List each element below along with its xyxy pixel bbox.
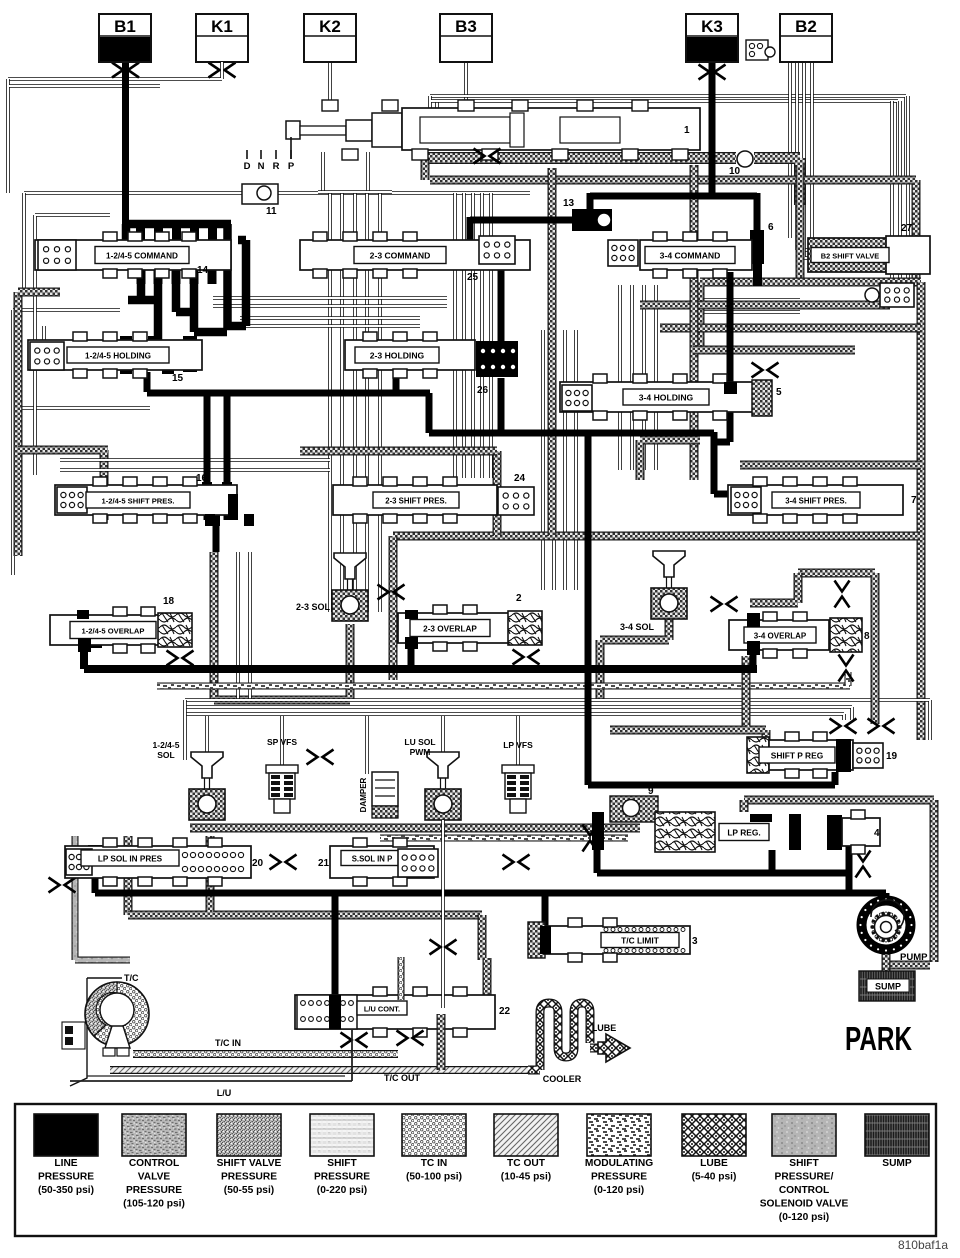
wire mid h5 <box>60 458 330 462</box>
line pressure step down <box>426 393 433 433</box>
svg-text:2: 2 <box>516 593 522 604</box>
check valve left of 3-4 overlap <box>711 597 738 612</box>
wire manual valve drop 2 <box>366 152 370 193</box>
wire right drop to B2SV <box>890 101 894 283</box>
wire B3 to valve1 <box>435 100 439 118</box>
channel left hatched branch <box>18 450 108 520</box>
svg-text:TC OUT: TC OUT <box>507 1158 546 1169</box>
channel cv pressure band <box>425 152 736 164</box>
check valve right of sp vfs <box>307 750 334 765</box>
valve 2-3 holding 26 <box>345 340 475 370</box>
node 13 junction block <box>572 209 612 231</box>
manual valve spool lands <box>420 117 510 143</box>
line pressure top-right horizontal <box>590 193 757 200</box>
legend swatch SUMP <box>865 1114 929 1156</box>
svg-text:1-2/4-5 SHIFT PRES.: 1-2/4-5 SHIFT PRES. <box>101 496 174 505</box>
svg-text:(10-45 psi): (10-45 psi) <box>501 1172 551 1183</box>
line pressure 1-2/4-5 overlap drop <box>80 648 88 669</box>
line pressure drop to 2-3 command <box>467 217 474 248</box>
check valve between 20 21 <box>270 855 297 870</box>
spring block 18 <box>158 613 192 647</box>
valve 3-4 holding right block <box>752 380 772 416</box>
line pressure cluster top h <box>122 220 231 229</box>
line pressure cluster bottom nubs <box>137 270 146 284</box>
line pressure connector 1-2/4-5 overlap <box>78 638 91 652</box>
channel left edge hatched <box>14 292 23 556</box>
check valve on lu line <box>430 940 457 955</box>
pump <box>862 901 911 950</box>
pump gerotor <box>871 900 904 931</box>
legend swatch CONTROL <box>122 1114 186 1156</box>
channel hatched right h5 <box>640 440 700 480</box>
line pressure cluster below command <box>128 266 227 348</box>
connector s.sol <box>398 849 438 877</box>
svg-text:SHIFT P REG: SHIFT P REG <box>771 750 823 760</box>
connector 3-4 shift pres <box>731 487 761 513</box>
svg-text:25: 25 <box>467 272 479 283</box>
channel hatched right v1 <box>796 165 805 278</box>
line pressure stub below shift pres <box>213 520 220 552</box>
svg-text:3: 3 <box>692 936 698 947</box>
legend swatch TC IN <box>402 1114 466 1156</box>
svg-text:SHIFT VALVE: SHIFT VALVE <box>217 1158 282 1169</box>
wire B2 drop 3 <box>804 62 890 258</box>
svg-text:SUMP: SUMP <box>875 982 901 992</box>
svg-text:11: 11 <box>266 206 277 217</box>
svg-text:B2: B2 <box>795 17 817 36</box>
line pressure long horizontal 2 <box>429 430 714 437</box>
l/u cont perforated block <box>297 995 357 1029</box>
wire B2 drop 2 <box>797 62 890 250</box>
legend swatch SHIFT VALVE <box>217 1114 281 1156</box>
line pressure center vertical lower <box>585 669 592 785</box>
svg-text:DAMPER: DAMPER <box>359 777 368 812</box>
connector 3-4 command <box>608 240 638 266</box>
connector 1-2/4-5 command <box>38 240 76 270</box>
valve l/u cont 22 <box>295 995 495 1029</box>
wire low h3 <box>185 714 844 720</box>
svg-text:SUMP: SUMP <box>882 1158 912 1169</box>
wire ladder2 v1 <box>453 193 457 478</box>
channel sol row to ball9 <box>545 824 640 833</box>
svg-text:9: 9 <box>648 786 654 797</box>
channel hatched right h4 <box>693 346 855 355</box>
svg-text:B2 SHIFT VALVE: B2 SHIFT VALVE <box>821 251 880 260</box>
svg-text:26: 26 <box>477 385 489 396</box>
line pressure shift p reg drop <box>832 772 839 785</box>
channel hatched overlap right <box>798 573 875 724</box>
channel hatched right corner <box>700 282 921 350</box>
line pressure nub 3-4 holding <box>724 382 737 394</box>
channel tclimit to lucont <box>483 958 492 1002</box>
solenoid 3-4 sol <box>653 551 685 577</box>
wire center ladder v1 <box>328 192 332 612</box>
cooler serpentine <box>528 1003 612 1070</box>
spring block 2 <box>508 611 542 645</box>
svg-text:PRESSURE: PRESSURE <box>314 1172 370 1183</box>
wire node11 east <box>278 191 530 195</box>
line pressure to pump <box>883 893 890 902</box>
line pressure lp reg left down <box>594 850 601 873</box>
channel hatched right v2 <box>690 165 699 480</box>
check valve below 2-3 overlap <box>513 650 540 665</box>
svg-text:4: 4 <box>874 828 880 839</box>
line pressure 3-4 overlap drop <box>750 652 757 669</box>
legend swatch LUBE <box>682 1114 746 1156</box>
orifice node 11 <box>242 184 278 204</box>
check valve below K3 <box>699 65 726 80</box>
channel bottom left v <box>124 836 133 915</box>
solenoid lu sol pwm <box>427 752 459 778</box>
clutch box K3 <box>686 14 738 62</box>
wire manual valve drop 1 <box>321 152 325 193</box>
svg-text:5: 5 <box>776 387 782 398</box>
line pressure lp reg bottom h <box>597 870 849 877</box>
svg-text:LU SOL: LU SOL <box>404 737 435 747</box>
svg-text:T/C IN: T/C IN <box>215 1038 241 1048</box>
svg-text:3-4 OVERLAP: 3-4 OVERLAP <box>754 631 807 640</box>
svg-text:(50-350 psi): (50-350 psi) <box>38 1185 94 1196</box>
line pressure 3-4 holding drop <box>714 412 730 442</box>
legend swatch TC OUT <box>494 1114 558 1156</box>
clutch box K2 <box>304 14 356 62</box>
connector 3-4 holding <box>562 385 592 411</box>
channel bottom left v2 <box>206 836 215 912</box>
channel bottom left to tclimit <box>478 915 487 960</box>
line pressure network: K3 drop <box>709 58 716 197</box>
wire left frame <box>13 310 120 575</box>
line pressure connector 2-3 overlap <box>405 610 418 619</box>
channel bottom left h <box>128 911 482 920</box>
svg-text:(0-220 psi): (0-220 psi) <box>317 1185 367 1196</box>
valve 1-2/4-5 shift pres 16 <box>55 485 237 515</box>
valve 2-3 command 25 <box>300 240 530 270</box>
wire mid h6 <box>60 468 330 472</box>
svg-text:VALVE: VALVE <box>138 1172 171 1183</box>
svg-text:LP REG.: LP REG. <box>727 827 760 837</box>
wire B2 drop 4 <box>812 62 890 265</box>
svg-text:10: 10 <box>729 166 741 177</box>
wire right h1 <box>700 298 800 302</box>
wire shift pres drop 2 <box>248 552 252 700</box>
channel cv band 2 <box>430 180 916 278</box>
valve 3-4 command 6 <box>640 240 752 270</box>
wire right drop to B2SV 3 <box>906 96 910 283</box>
wire L/U line <box>70 1030 352 1081</box>
svg-text:24: 24 <box>514 473 526 484</box>
line pressure long overlap horizontal <box>84 665 757 673</box>
svg-text:L/U: L/U <box>217 1088 232 1098</box>
check valve above 2-3 overlap <box>378 585 405 600</box>
wire holding stem <box>42 326 46 344</box>
channel 2-3 sol drain <box>214 552 350 700</box>
wire left frame 2 <box>35 215 110 475</box>
connector b2 shift valve right <box>880 283 914 307</box>
check valve right of lp reg <box>856 851 871 878</box>
legend box <box>15 1104 936 1236</box>
svg-text:P: P <box>288 161 295 172</box>
wire ladder2 v5 <box>489 193 493 478</box>
valve s.sol in p 21 <box>330 846 434 878</box>
line pressure 3-4 cmd to holding v <box>727 272 734 382</box>
wire feed 1-2/4-5 sol <box>205 716 209 754</box>
wire top left pair 2 <box>8 79 160 193</box>
wire right drop to B2SV 2 <box>898 101 902 283</box>
valve 3-4 overlap 8 <box>729 620 829 650</box>
svg-text:LUBE: LUBE <box>700 1158 728 1169</box>
wire left h feed <box>13 406 150 410</box>
wire left drop <box>24 193 60 292</box>
wire ladder2 v3 <box>471 193 475 478</box>
svg-text:(0-120 psi): (0-120 psi) <box>594 1185 644 1196</box>
solenoid lp vfs <box>502 765 534 773</box>
check valve above shift p reg 2 <box>868 719 895 734</box>
svg-text:LINE: LINE <box>54 1158 77 1169</box>
valve 1-2/4-5 overlap 18 <box>50 615 160 645</box>
svg-text:(105-120 psi): (105-120 psi) <box>123 1199 185 1210</box>
svg-text:CONTROL: CONTROL <box>129 1158 179 1169</box>
check valve above 3-4 overlap <box>835 581 850 608</box>
wire K1 stub <box>220 62 224 74</box>
line pressure 3-4 overlap connector <box>747 614 760 654</box>
line pressure tip t/c limit <box>540 926 551 954</box>
channel hatched mid v2 <box>493 451 502 536</box>
channel hatched pump frame <box>744 800 934 962</box>
clutch box B2 <box>780 14 832 62</box>
wire ladder2 v4 <box>480 193 484 478</box>
svg-text:B3: B3 <box>455 17 477 36</box>
wire ladder4 v3 <box>642 285 646 470</box>
svg-text:2-3 SOL: 2-3 SOL <box>296 602 331 612</box>
channel T/C IN dotted <box>133 1050 398 1058</box>
svg-text:T/C OUT: T/C OUT <box>384 1073 420 1083</box>
legend swatch MODULATING <box>587 1114 651 1156</box>
wire lu sol to l/u cont <box>441 820 445 1008</box>
line pressure 1-2/4-5 holding connector <box>183 336 197 372</box>
svg-text:LP SOL IN PRES: LP SOL IN PRES <box>98 854 163 863</box>
svg-text:8: 8 <box>864 631 870 642</box>
wire feed lu sol <box>441 716 445 754</box>
line pressure drop to T/C limit <box>542 893 549 930</box>
svg-text:2-3 OVERLAP: 2-3 OVERLAP <box>423 624 477 633</box>
svg-text:CONTROL: CONTROL <box>779 1185 829 1196</box>
svg-text:SOL: SOL <box>157 750 174 760</box>
channel hatched center v <box>548 168 557 536</box>
svg-text:N: N <box>258 161 265 172</box>
line pressure lp sol connector <box>88 845 102 859</box>
check valve below 3-4 overlap <box>839 655 854 682</box>
line pressure 2-3 holding connector <box>452 340 466 368</box>
svg-text:LP VFS: LP VFS <box>503 740 533 750</box>
svg-text:16: 16 <box>196 473 208 484</box>
line pressure node13 west <box>470 217 572 224</box>
channel l/u cont to cooler <box>437 1014 446 1070</box>
solenoid sp vfs <box>266 765 298 773</box>
spring block 8 <box>830 618 862 652</box>
svg-text:SHIFT: SHIFT <box>327 1158 357 1169</box>
check valve below B1 <box>112 63 139 78</box>
check valve right of 21 <box>503 855 530 870</box>
svg-text:1-2/4-5: 1-2/4-5 <box>153 740 180 750</box>
svg-text:(0-120 psi): (0-120 psi) <box>779 1212 829 1223</box>
line pressure drop to L/U cont <box>332 893 339 1008</box>
wire B2 drop 1 <box>788 62 792 238</box>
valve 1-2/4-5 command 14 <box>35 240 231 270</box>
svg-text:22: 22 <box>499 1006 511 1017</box>
wire low h1 <box>185 700 930 740</box>
svg-text:T/C LIMIT: T/C LIMIT <box>621 935 660 945</box>
valve t/c limit 3 <box>545 926 690 954</box>
line pressure right v below holding <box>711 432 718 494</box>
wire mid h4 <box>240 324 420 328</box>
line pressure drop to 3-4 command <box>754 193 761 243</box>
svg-text:R: R <box>273 161 280 172</box>
line pressure center long vertical <box>585 432 592 667</box>
line pressure cluster nubs above 1-2/4-5 command <box>136 228 145 242</box>
svg-text:3-4 HOLDING: 3-4 HOLDING <box>639 392 694 402</box>
svg-text:PRESSURE: PRESSURE <box>126 1185 182 1196</box>
channel hatched pump frame v <box>740 800 749 812</box>
connector 2-3 command <box>479 236 515 264</box>
svg-text:27: 27 <box>901 223 913 234</box>
svg-text:6: 6 <box>768 222 774 233</box>
line pressure L/U tip <box>329 995 341 1029</box>
wire ladder3 v2 <box>552 330 556 590</box>
svg-text:COOLER: COOLER <box>543 1074 582 1084</box>
line pressure network: B1 drop <box>122 58 129 250</box>
line pressure to shift pres <box>207 392 227 520</box>
svg-text:3-4 COMMAND: 3-4 COMMAND <box>660 250 721 260</box>
T/C seals <box>62 1022 85 1049</box>
svg-text:810baf1a: 810baf1a <box>898 1238 948 1252</box>
check valve above 3-4 holding <box>752 363 779 378</box>
channel left hatched stub <box>18 288 60 297</box>
line pressure 1-2/4-5 shift pres nubs <box>202 482 212 494</box>
line pressure 3-4 holding nub <box>724 382 737 394</box>
manual valve top stubs <box>322 100 338 111</box>
line pressure 2-3 overlap connector <box>405 618 418 642</box>
wire ladder3 v1 <box>541 330 545 590</box>
valve 3-4 holding 5 <box>560 382 760 412</box>
svg-text:MODULATING: MODULATING <box>585 1158 653 1169</box>
channel hatched pump out <box>890 961 930 970</box>
svg-text:(50-55 psi): (50-55 psi) <box>224 1185 274 1196</box>
wire feed damper <box>365 716 369 774</box>
svg-text:13: 13 <box>563 198 575 209</box>
orifice node 10 <box>737 151 753 167</box>
manual valve bottom stubs <box>342 149 358 160</box>
wire mid h1 <box>213 296 447 300</box>
svg-text:18: 18 <box>163 596 175 607</box>
sump <box>859 971 915 1001</box>
line pressure cluster b1 join <box>122 224 131 244</box>
svg-text:L/U CONT.: L/U CONT. <box>364 1004 400 1013</box>
2-3 holding solenoid block 26 <box>476 341 518 377</box>
svg-text:3-4 SHIFT PRES.: 3-4 SHIFT PRES. <box>785 496 847 505</box>
svg-text:SP VFS: SP VFS <box>267 737 297 747</box>
svg-text:19: 19 <box>886 751 898 762</box>
connector shift p reg <box>853 743 883 768</box>
lube arrow <box>598 1034 630 1062</box>
svg-text:21: 21 <box>318 858 330 869</box>
solenoid 1-2/4-5 sol <box>191 752 223 778</box>
solenoid 2-3 sol <box>334 553 366 579</box>
line pressure 3-4 command block 6 <box>750 230 764 264</box>
check valve on cv band <box>474 149 501 164</box>
check valve below l/u cont 2 <box>397 1031 424 1046</box>
wire low h2 <box>185 707 852 720</box>
line pressure long bottom horizontal <box>95 890 886 897</box>
channel pump to sump <box>882 952 891 971</box>
svg-text:1-2/4-5 OVERLAP: 1-2/4-5 OVERLAP <box>82 626 145 635</box>
wire ladder3 v4 <box>574 330 578 590</box>
wire ladder2 v2 <box>462 193 466 478</box>
wire feed lp vfs <box>516 716 520 766</box>
svg-text:2-3 SHIFT PRES.: 2-3 SHIFT PRES. <box>385 496 447 505</box>
check valve near ball 9 <box>583 825 598 852</box>
svg-text:7: 7 <box>911 495 917 506</box>
wire shift pres drop 1 <box>236 552 240 700</box>
connector 1-2/4-5 holding <box>30 342 64 370</box>
channel hatched right edge long <box>917 282 926 740</box>
valve 3-4 shift pres 7 <box>728 485 903 515</box>
check valve below K1 <box>209 63 236 78</box>
line pressure long horizontal 1 <box>147 390 430 397</box>
channel T/C OUT diagonal <box>110 1066 530 1074</box>
line pressure into 2-3 command <box>453 248 460 262</box>
clutch box B1 <box>99 14 151 62</box>
wire ladder4 v4 <box>654 285 658 470</box>
check valve below overlap <box>167 651 194 666</box>
line pressure lp reg mid down <box>769 850 776 873</box>
wire right h2 <box>700 310 800 314</box>
svg-text:PRESSURE: PRESSURE <box>221 1172 277 1183</box>
wire low left v <box>183 700 187 760</box>
channel gray left <box>75 836 130 960</box>
svg-text:3-4 SOL: 3-4 SOL <box>620 622 655 632</box>
connector 2-3 shift pres <box>498 487 534 515</box>
wire center ladder v3 <box>353 192 357 612</box>
line pressure 2-3 holding bottom <box>393 368 400 394</box>
line pressure cluster right v <box>223 224 232 329</box>
check valve bottom left <box>49 878 76 893</box>
svg-text:B1: B1 <box>114 17 136 36</box>
valve 2-3 shift pres 24 <box>333 485 497 515</box>
channel modulating to ball9 <box>380 835 628 842</box>
channel cv band elbow <box>421 158 430 180</box>
line pressure lp reg right down <box>846 846 853 893</box>
line pressure 26 block drop <box>498 378 505 433</box>
channel hatched mid h <box>300 447 497 456</box>
torque converter T/C <box>70 978 122 1086</box>
channel modulating long <box>157 683 850 690</box>
svg-text:1-2/4-5 COMMAND: 1-2/4-5 COMMAND <box>106 251 178 260</box>
legend swatch SHIFT <box>310 1114 374 1156</box>
legend swatch SHIFT <box>772 1114 836 1156</box>
wire ladder4 v2 <box>630 285 634 470</box>
wire top left pair 1 <box>8 74 222 79</box>
valve 2-3 overlap 2 <box>398 613 510 643</box>
connector 1-2/4-5 shift pres <box>57 487 87 513</box>
check valve pair near B2 <box>746 40 768 60</box>
connector lp sol <box>66 849 92 875</box>
svg-text:2-3 COMMAND: 2-3 COMMAND <box>370 250 431 260</box>
damper <box>372 772 398 806</box>
line pressure tip l/u cont <box>329 995 341 1029</box>
svg-text:PRESSURE: PRESSURE <box>38 1172 94 1183</box>
svg-text:SOLENOID VALVE: SOLENOID VALVE <box>760 1199 849 1210</box>
svg-text:PRESSURE/: PRESSURE/ <box>775 1172 834 1183</box>
